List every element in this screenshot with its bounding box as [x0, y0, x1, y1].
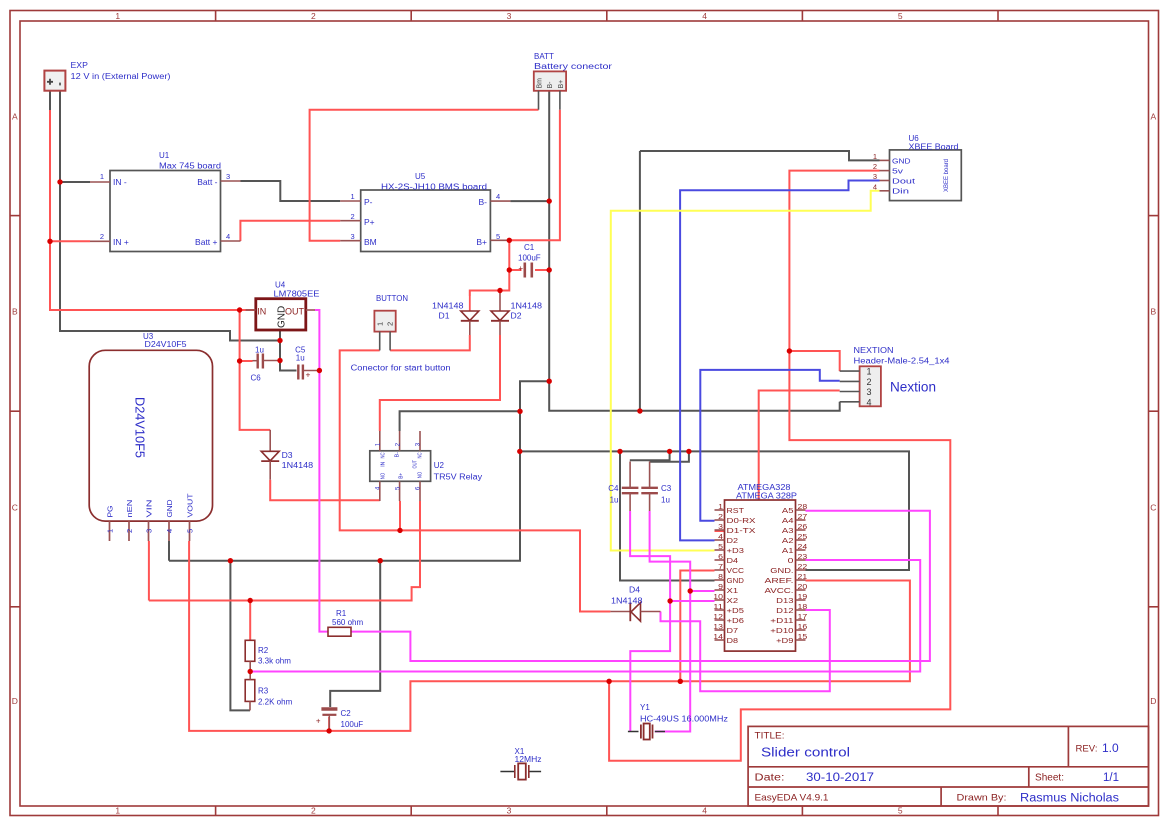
svg-text:8: 8 — [718, 572, 723, 581]
svg-text:1u: 1u — [610, 496, 619, 505]
svg-text:R1: R1 — [336, 609, 347, 618]
svg-text:VOUT: VOUT — [186, 493, 195, 517]
svg-text:9: 9 — [718, 582, 723, 591]
svg-text:ATMEGA 328P: ATMEGA 328P — [736, 492, 797, 501]
svg-text:AREF.: AREF. — [765, 576, 794, 585]
svg-text:1/1: 1/1 — [1103, 772, 1119, 784]
svg-text:5v: 5v — [892, 167, 903, 176]
svg-text:10: 10 — [713, 592, 723, 601]
svg-text:1N4148: 1N4148 — [282, 461, 314, 470]
svg-text:B-: B- — [395, 452, 401, 458]
svg-text:1: 1 — [115, 806, 120, 816]
svg-text:1: 1 — [867, 367, 872, 377]
svg-text:2: 2 — [867, 377, 872, 387]
svg-text:GND: GND — [276, 306, 287, 328]
svg-text:NC: NC — [380, 452, 386, 458]
svg-text:12MHz: 12MHz — [515, 755, 542, 764]
svg-text:2: 2 — [718, 512, 723, 521]
svg-text:27: 27 — [798, 512, 808, 521]
svg-text:B+: B+ — [399, 473, 405, 479]
svg-text:P-: P- — [364, 197, 373, 207]
svg-text:C3: C3 — [661, 484, 672, 493]
svg-text:OUT: OUT — [413, 460, 419, 469]
svg-text:IN +: IN + — [113, 237, 129, 247]
svg-text:D4: D4 — [629, 586, 641, 595]
svg-text:D24V10F5: D24V10F5 — [145, 340, 188, 349]
svg-text:17: 17 — [798, 612, 808, 621]
svg-text:3: 3 — [867, 387, 872, 397]
svg-text:RST: RST — [727, 506, 745, 515]
svg-text:2: 2 — [873, 162, 877, 171]
svg-text:C: C — [1150, 503, 1156, 513]
svg-text:GND: GND — [165, 499, 174, 518]
svg-text:U5: U5 — [415, 172, 426, 181]
svg-text:Conector for start button: Conector for start button — [351, 364, 451, 373]
svg-text:560 ohm: 560 ohm — [332, 618, 363, 627]
svg-text:2: 2 — [351, 212, 355, 221]
svg-text:C: C — [12, 503, 18, 513]
svg-text:20: 20 — [798, 582, 808, 591]
svg-text:NO: NO — [417, 472, 423, 479]
svg-text:1.0: 1.0 — [1102, 741, 1119, 755]
svg-text:B-: B- — [479, 197, 488, 207]
svg-text:1: 1 — [105, 529, 114, 533]
svg-text:Sheet:: Sheet: — [1035, 773, 1064, 784]
svg-text:XBEE Board: XBEE Board — [909, 142, 959, 151]
svg-text:U1: U1 — [159, 151, 170, 160]
svg-text:11: 11 — [713, 602, 723, 611]
svg-text:100uF: 100uF — [341, 720, 364, 729]
svg-text:6: 6 — [718, 552, 723, 561]
svg-text:4: 4 — [867, 397, 872, 407]
svg-text:+D5: +D5 — [727, 606, 744, 615]
svg-text:D1: D1 — [439, 312, 451, 321]
svg-text:13: 13 — [713, 622, 723, 631]
svg-text:4: 4 — [702, 11, 707, 21]
svg-text:D4: D4 — [727, 556, 739, 565]
svg-text:D24V10F5: D24V10F5 — [133, 397, 147, 458]
svg-text:18: 18 — [798, 602, 808, 611]
svg-text:Header-Male-2.54_1x4: Header-Male-2.54_1x4 — [854, 356, 951, 365]
svg-text:30-10-2017: 30-10-2017 — [806, 770, 874, 784]
svg-text:1u: 1u — [296, 353, 305, 362]
svg-text:LM7805EE: LM7805EE — [274, 290, 320, 299]
svg-text:1: 1 — [718, 502, 723, 511]
svg-text:Batt +: Batt + — [195, 237, 217, 247]
svg-text:D7: D7 — [727, 626, 739, 635]
svg-text:+D11: +D11 — [770, 616, 793, 625]
svg-text:D1-TX: D1-TX — [727, 526, 756, 535]
svg-text:B-: B- — [547, 81, 554, 89]
svg-text:16: 16 — [798, 622, 808, 631]
svg-text:100uF: 100uF — [518, 254, 541, 263]
svg-text:HX-2S-JH10 BMS board: HX-2S-JH10 BMS board — [381, 183, 487, 192]
svg-text:D13: D13 — [776, 596, 793, 605]
svg-text:D8: D8 — [727, 636, 739, 645]
svg-text:XBEE board: XBEE board — [944, 159, 950, 192]
svg-text:B+: B+ — [558, 80, 565, 89]
svg-text:+D3: +D3 — [727, 546, 744, 555]
svg-text:Dout: Dout — [892, 177, 916, 186]
svg-text:3: 3 — [351, 232, 355, 241]
svg-text:1: 1 — [100, 172, 104, 181]
svg-text:12 V in (External Power): 12 V in (External Power) — [71, 72, 171, 81]
svg-text:AVCC.: AVCC. — [765, 586, 794, 595]
svg-text:A: A — [1150, 112, 1156, 122]
svg-text:BATT: BATT — [534, 52, 554, 61]
svg-text:A1: A1 — [782, 546, 794, 555]
svg-text:X2: X2 — [727, 596, 739, 605]
svg-text:2: 2 — [386, 322, 395, 326]
svg-text:D0-RX: D0-RX — [727, 516, 756, 525]
svg-text:1: 1 — [873, 152, 877, 161]
svg-text:1N4148: 1N4148 — [432, 302, 464, 311]
svg-text:BM: BM — [364, 237, 377, 247]
svg-text:5: 5 — [898, 806, 903, 816]
svg-text:Max 745 board: Max 745 board — [159, 162, 221, 171]
svg-text:5: 5 — [185, 529, 194, 533]
svg-text:B: B — [12, 307, 18, 317]
svg-text:BUTTON: BUTTON — [376, 294, 408, 303]
svg-text:TR5V Relay: TR5V Relay — [434, 473, 483, 482]
svg-text:+D6: +D6 — [727, 616, 744, 625]
svg-text:B+: B+ — [476, 237, 487, 247]
svg-text:7: 7 — [718, 562, 723, 571]
svg-text:3: 3 — [226, 172, 230, 181]
svg-text:D3: D3 — [282, 451, 294, 460]
svg-text:4: 4 — [873, 182, 877, 191]
svg-text:+D9: +D9 — [776, 636, 793, 645]
svg-text:Batt -: Batt - — [197, 177, 217, 187]
svg-text:26: 26 — [798, 522, 808, 531]
svg-text:2: 2 — [311, 806, 316, 816]
svg-text:Bm: Bm — [537, 78, 544, 89]
svg-text:4: 4 — [718, 532, 723, 541]
svg-text:21: 21 — [798, 572, 808, 581]
svg-text:R2: R2 — [258, 646, 269, 655]
svg-text:OUT: OUT — [285, 306, 305, 316]
svg-text:D2: D2 — [511, 312, 523, 321]
svg-text:1N4148: 1N4148 — [511, 302, 543, 311]
svg-text:NEXTION: NEXTION — [854, 346, 894, 355]
svg-text:3: 3 — [507, 11, 512, 21]
svg-text:Din: Din — [892, 187, 909, 196]
svg-text:IN: IN — [257, 306, 266, 316]
svg-text:VIN: VIN — [145, 500, 154, 518]
svg-text:X1: X1 — [727, 586, 739, 595]
svg-text:nEN: nEN — [125, 500, 134, 518]
svg-text:4: 4 — [226, 232, 230, 241]
svg-text:5: 5 — [496, 232, 500, 241]
svg-text:14: 14 — [713, 632, 723, 641]
svg-text:3: 3 — [718, 522, 723, 531]
svg-text:EasyEDA V4.9.1: EasyEDA V4.9.1 — [755, 793, 829, 804]
svg-text:GND.: GND. — [770, 566, 793, 575]
svg-text:28: 28 — [798, 502, 808, 511]
svg-text:P+: P+ — [364, 217, 375, 227]
svg-text:0: 0 — [788, 556, 794, 565]
svg-text:2.2K ohm: 2.2K ohm — [258, 698, 293, 707]
svg-text:C2: C2 — [341, 709, 352, 718]
svg-text:B: B — [1150, 307, 1156, 317]
svg-text:NO: NO — [380, 473, 386, 480]
svg-text:1u: 1u — [255, 345, 264, 354]
svg-text:U4: U4 — [275, 281, 286, 290]
svg-text:C4: C4 — [608, 484, 619, 493]
svg-text:15: 15 — [798, 632, 808, 641]
svg-text:Slider control: Slider control — [761, 745, 850, 760]
svg-text:+D10: +D10 — [770, 626, 793, 635]
svg-text:2: 2 — [125, 529, 134, 533]
svg-text:NC: NC — [417, 452, 423, 458]
svg-text:4: 4 — [702, 806, 707, 816]
svg-text:+: + — [306, 370, 311, 380]
svg-text:R3: R3 — [258, 687, 269, 696]
svg-text:D2: D2 — [727, 536, 739, 545]
svg-text:A3: A3 — [782, 526, 794, 535]
svg-text:23: 23 — [798, 552, 808, 561]
svg-text:A5: A5 — [782, 506, 794, 515]
svg-text:EXP: EXP — [71, 61, 88, 70]
svg-text:1u: 1u — [661, 496, 670, 505]
svg-text:19: 19 — [798, 592, 808, 601]
svg-text:A4: A4 — [782, 516, 794, 525]
svg-text:A: A — [12, 112, 18, 122]
svg-text:REV:: REV: — [1076, 744, 1098, 755]
svg-text:Nextion: Nextion — [890, 379, 936, 395]
svg-text:PG: PG — [106, 505, 115, 517]
svg-text:IN -: IN - — [113, 177, 127, 187]
svg-text:1: 1 — [351, 192, 355, 201]
svg-text:Battery conector: Battery conector — [534, 62, 612, 71]
svg-text:12: 12 — [713, 612, 723, 621]
svg-text:Drawn By:: Drawn By: — [957, 793, 1007, 804]
svg-text:3: 3 — [873, 172, 877, 181]
svg-text:Date:: Date: — [755, 773, 785, 784]
svg-text:1: 1 — [376, 322, 385, 326]
svg-text:3: 3 — [507, 806, 512, 816]
svg-text:1N4148: 1N4148 — [611, 597, 643, 606]
svg-text:GND: GND — [892, 157, 911, 166]
svg-text:1: 1 — [115, 11, 120, 21]
svg-text:5: 5 — [898, 11, 903, 21]
svg-text:D: D — [12, 696, 18, 706]
svg-text:Rasmus Nicholas: Rasmus Nicholas — [1020, 793, 1119, 805]
svg-text:D12: D12 — [776, 606, 793, 615]
svg-text:24: 24 — [798, 542, 808, 551]
svg-text:IN: IN — [380, 461, 386, 466]
svg-text:3.3k ohm: 3.3k ohm — [258, 657, 291, 666]
svg-text:U2: U2 — [434, 461, 445, 470]
svg-text:A2: A2 — [782, 536, 794, 545]
svg-text:2: 2 — [311, 11, 316, 21]
svg-text:D: D — [1150, 696, 1156, 706]
svg-text:Y1: Y1 — [640, 703, 650, 712]
svg-text:2: 2 — [100, 232, 104, 241]
svg-text:+: + — [518, 264, 523, 273]
svg-text:VCC: VCC — [727, 566, 745, 575]
svg-text:TITLE:: TITLE: — [755, 731, 785, 741]
svg-text:GND: GND — [727, 576, 745, 585]
svg-text:4: 4 — [165, 529, 174, 533]
svg-text:+: + — [316, 717, 321, 726]
svg-text:3: 3 — [144, 529, 153, 533]
svg-text:HC-49US 16.000MHz: HC-49US 16.000MHz — [640, 715, 728, 724]
svg-text:5: 5 — [718, 542, 723, 551]
svg-text:25: 25 — [798, 532, 808, 541]
svg-text:C6: C6 — [251, 373, 262, 382]
svg-text:22: 22 — [798, 562, 808, 571]
svg-text:C1: C1 — [524, 243, 535, 252]
svg-text:4: 4 — [496, 192, 500, 201]
